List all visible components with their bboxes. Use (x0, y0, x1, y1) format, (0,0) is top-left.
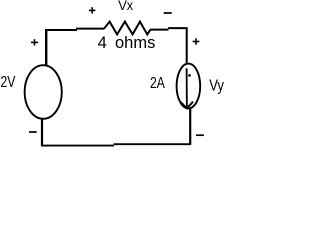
plus sign right top (193, 38, 200, 44)
wire bottom-right vertical (189, 108, 191, 145)
svg-text:4: 4 (98, 34, 107, 52)
svg-text:ohms: ohms (115, 34, 155, 52)
dot inside current source (188, 74, 190, 76)
svg-text:2V: 2V (1, 74, 16, 91)
voltage source ellipse 2V (25, 65, 62, 119)
svg-text:Vx: Vx (118, 0, 133, 13)
wire bottom rail left (41, 145, 114, 147)
wire top middle (76, 28, 104, 30)
svg-text:Vy: Vy (209, 77, 224, 94)
plus sign left top (31, 39, 38, 45)
current source ellipse 2A (177, 64, 201, 109)
wire top-right segment a (150, 29, 168, 31)
wire top-left vertical (45, 29, 47, 66)
plus sign above resistor (89, 7, 95, 13)
minus sign bottom left (29, 131, 37, 133)
wire top-left horizontal (45, 29, 77, 31)
wire bottom-left vertical (41, 118, 43, 146)
wire bottom rail right (114, 143, 191, 145)
current source arrowhead (181, 102, 193, 109)
resistor Vx 4 ohms zigzag (104, 22, 150, 35)
current source arrow shaft (186, 68, 188, 108)
svg-text:2A: 2A (150, 75, 165, 92)
minus sign bottom right (196, 134, 204, 136)
wire top-right segment b with corner (168, 28, 187, 64)
minus sign right of Vx (164, 12, 172, 14)
